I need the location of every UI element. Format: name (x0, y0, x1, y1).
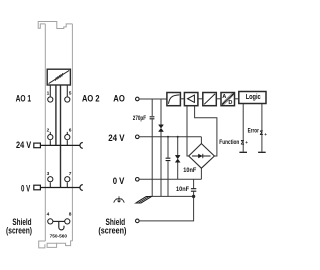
shield line (150, 195, 194, 197)
stub below terminal 3 (49, 182, 51, 187)
svg-text:Logic: Logic (246, 94, 261, 101)
logic pin function (242, 104, 244, 152)
terminal AO (136, 97, 140, 101)
junction dot shield/10nF node (192, 195, 195, 198)
middle wire to 0V line (60, 85, 62, 187)
svg-text:24 V: 24 V (108, 133, 125, 143)
shield link wire between terminals 4 and 8 with hook (53, 221, 65, 230)
diamond top stem (200, 137, 202, 144)
zener diode (176, 156, 180, 163)
svg-text:Error: Error (248, 128, 260, 135)
vertical tap with 270pF (151, 99, 153, 116)
box2 left pin down to diamond left corner (187, 106, 189, 156)
svg-text:8: 8 (69, 211, 72, 217)
terminal shield (136, 219, 140, 223)
0V field line with lug and loop arc (34, 185, 83, 191)
terminal 6 (65, 135, 70, 140)
wires: module internal legs (50, 85, 67, 187)
stub below terminal 7 (66, 182, 68, 187)
terminal circles (136, 97, 140, 223)
box2 amplifier triangle (184, 93, 198, 106)
stub below terminal 2 (49, 140, 51, 145)
10nF cap line 0V to shield (193, 179, 195, 188)
svg-text:3: 3 (47, 171, 50, 177)
terminal circles rows 1-4 (48, 97, 70, 224)
box3-box4 link (217, 98, 221, 100)
terminal 0V (136, 178, 140, 182)
svg-text:Σ: Σ (260, 131, 264, 137)
diagonal with hatch inside module box (49, 70, 70, 83)
svg-text:270pF: 270pF (133, 115, 146, 122)
box1 output curve (167, 93, 181, 106)
svg-text:+: + (264, 132, 267, 137)
AO rail (139, 98, 166, 100)
logic pin error (261, 104, 263, 152)
chassis earth symbol at shield line (136, 197, 152, 204)
junction dot 24V rail / suppressor branch (177, 136, 179, 138)
svg-text:AO 2: AO 2 (82, 94, 100, 104)
junction dots (167, 136, 195, 198)
24V field line with lug and loop arc (34, 143, 83, 149)
diamond bottom stem (200, 168, 202, 179)
svg-text:750-560: 750-560 (50, 233, 68, 238)
box1-box2 link (181, 98, 185, 100)
stub below terminal 6 (66, 140, 68, 145)
10nF capacitor plates (shield branch) (191, 189, 196, 192)
box4-logic link (235, 98, 239, 100)
terminal 3 (48, 177, 53, 182)
svg-text:Function: Function (219, 139, 239, 146)
terminal 8 (65, 219, 70, 224)
svg-text:4: 4 (47, 211, 50, 217)
svg-text:D: D (228, 100, 232, 106)
10nF capacitor plates (24V branch) (166, 158, 171, 160)
svg-text:+: + (245, 140, 248, 145)
svg-text:(screen): (screen) (6, 226, 32, 236)
bridge diamond (189, 144, 215, 169)
wires (139, 99, 262, 221)
bottom shield loop to terminal (139, 196, 193, 221)
box3 isolation diagonal (203, 93, 217, 106)
LED T-bars (239, 151, 265, 153)
svg-text:10nF: 10nF (176, 186, 189, 193)
module body right edge (71, 24, 73, 241)
box4 A/D converter (221, 93, 235, 106)
270pF capacitor plates (150, 117, 155, 119)
svg-text:2: 2 (47, 128, 50, 134)
box2 right pin L to diamond right corner (195, 106, 217, 156)
24V rail (139, 136, 201, 138)
leg to terminal 5 (66, 85, 68, 96)
svg-text:A: A (222, 94, 226, 100)
svg-text:7: 7 (69, 171, 72, 177)
diode inside diamond (192, 154, 211, 158)
terminal 5 (65, 97, 70, 102)
stub above terminal 6 (66, 132, 68, 135)
cap line 10nF from 24V rail (167, 137, 169, 158)
svg-text:0 V: 0 V (21, 184, 31, 194)
svg-text:1: 1 (47, 90, 50, 96)
module top latch (38, 22, 72, 29)
svg-text:AO 1: AO 1 (16, 94, 32, 104)
svg-text:0 V: 0 V (113, 176, 125, 186)
box2-box3 link (198, 98, 202, 100)
svg-text:24 V: 24 V (16, 140, 32, 150)
svg-text:(screen): (screen) (98, 226, 126, 236)
middle wire to 24V line (55, 85, 57, 145)
terminal 2 (48, 135, 53, 140)
svg-text:10nF: 10nF (183, 167, 196, 174)
junction dot 24V rail / 10nF branch (167, 136, 169, 138)
terminal 7 (65, 177, 70, 182)
svg-text:Σ: Σ (241, 140, 245, 146)
module body left edge (44, 24, 46, 241)
leg to terminal 1 (49, 85, 51, 96)
vertical tap with TVS (160, 99, 162, 125)
terminal 1 (48, 97, 53, 102)
svg-text:AO: AO (113, 94, 125, 104)
zener line (177, 137, 179, 156)
0V rail (139, 178, 201, 180)
svg-text:6: 6 (69, 128, 72, 134)
logic box (239, 92, 266, 104)
terminal 24V (136, 135, 140, 139)
svg-text:5: 5 (69, 90, 72, 96)
DAC function box of module (47, 69, 70, 85)
wire rail to box1 (139, 98, 166, 100)
TVS suppressor diode (159, 125, 163, 131)
module bottom foot (39, 241, 46, 248)
stub above terminal 2 (49, 132, 51, 135)
terminal 4 (48, 219, 53, 224)
earth symbol above right Shield label (114, 196, 124, 203)
